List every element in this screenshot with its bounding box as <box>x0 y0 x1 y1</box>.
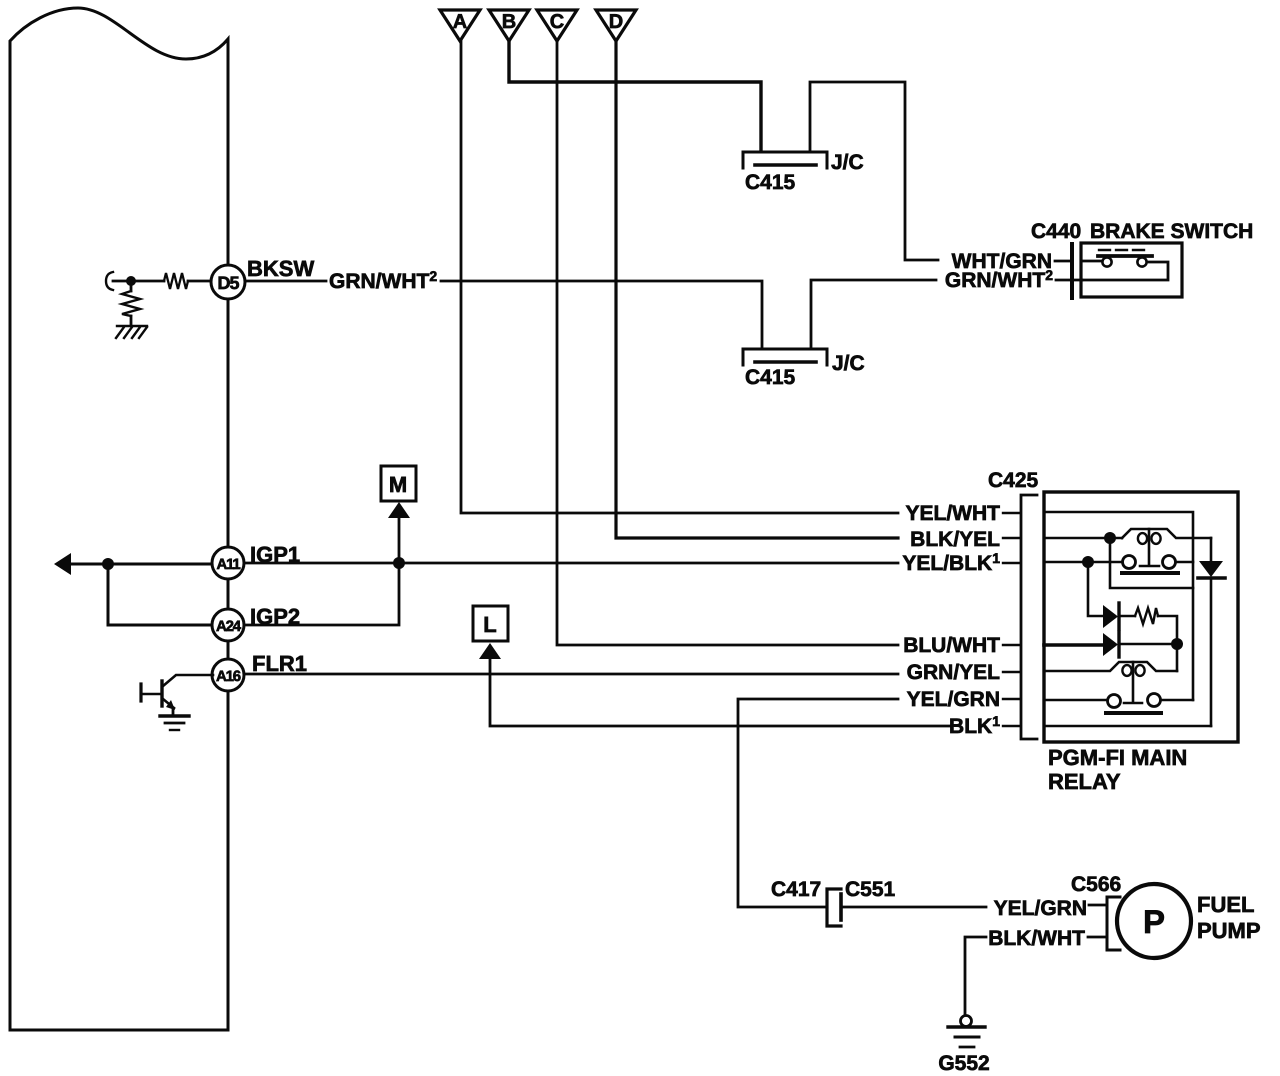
node: junction dot IGP1/IGP2 <box>102 558 114 570</box>
relay wire: YEL/WHT bus <box>1044 512 1193 700</box>
svg-text:A11: A11 <box>216 556 240 573</box>
wire: YEL/GRN from relay down to fuel pump <box>738 699 898 907</box>
relay coil 2 <box>1044 662 1177 671</box>
wire: B down and right to J/C C415 (upper) <box>509 41 761 151</box>
svg-text:C440: C440 <box>1031 220 1081 243</box>
svg-text:A16: A16 <box>216 668 241 685</box>
svg-text:P: P <box>1143 903 1165 940</box>
svg-text:YEL/WHT: YEL/WHT <box>906 502 1001 525</box>
resistor (relay internal) <box>1135 608 1158 624</box>
resistor (vertical, below junction dot) <box>130 286 133 291</box>
svg-text:YEL/GRN: YEL/GRN <box>994 897 1087 920</box>
connector triangle D <box>596 10 636 41</box>
svg-text:J/C: J/C <box>832 352 865 375</box>
wire: J/C to WHT/GRN brake switch <box>810 82 938 260</box>
connector triangle C <box>537 10 577 41</box>
svg-text:FLR1: FLR1 <box>252 651 307 676</box>
svg-text:BLU/WHT: BLU/WHT <box>903 634 1000 657</box>
pin A16 (FLR1) <box>212 659 244 691</box>
svg-text:BLK1: BLK1 <box>949 713 1000 738</box>
svg-text:G552: G552 <box>938 1052 989 1075</box>
wire: IGP1 YEL/BLK1 to relay <box>244 562 898 565</box>
svg-text:C551: C551 <box>845 878 896 901</box>
arrow (IGP1 to left, off-page) <box>70 563 212 566</box>
connector triangle A <box>440 10 480 41</box>
capacitor hook (left end of D5 internal wire) <box>106 272 113 290</box>
wire: IGP2 to M branch <box>244 518 399 625</box>
relay contact 2 <box>1108 695 1121 708</box>
relay wire: BLK/YEL into coil 1 <box>1044 537 1122 540</box>
svg-text:IGP1: IGP1 <box>250 542 300 567</box>
svg-text:PUMP: PUMP <box>1197 918 1261 943</box>
PGM-FI main relay box <box>1044 492 1238 742</box>
svg-text:YEL/GRN: YEL/GRN <box>907 688 1000 711</box>
svg-text:IGP2: IGP2 <box>250 604 300 629</box>
junction connector C415 (lower) <box>743 349 827 365</box>
node: junction dot at M branch <box>393 557 405 569</box>
svg-text:BLK/YEL: BLK/YEL <box>910 528 1000 551</box>
svg-text:A: A <box>453 11 467 33</box>
connector C566 bracket <box>1107 897 1120 950</box>
svg-text:M: M <box>389 472 407 497</box>
connector triangle B <box>489 10 529 41</box>
fuel pump motor circle <box>1117 884 1191 958</box>
wire: BLK1 from L to relay <box>490 659 950 726</box>
connector L box <box>473 606 508 641</box>
wire: D5 internal horizontal <box>113 280 210 283</box>
pin A11 (IGP1) <box>212 547 244 579</box>
wire: FLR1 GRN/YEL to relay <box>244 673 898 676</box>
pin A24 (IGP2) <box>212 609 244 641</box>
connector C425 bracket <box>1021 495 1037 739</box>
wire: A down to YEL/WHT <box>461 41 898 513</box>
svg-text:C: C <box>550 11 564 33</box>
node: dot on BLU/WHT <box>1171 638 1183 650</box>
svg-text:BLK/WHT: BLK/WHT <box>988 927 1085 950</box>
ECM module outline (torn-top box) <box>10 8 228 1030</box>
wire: D down to BLK/YEL <box>616 41 898 538</box>
wire: BKSW GRN/WHT2 from D5 <box>245 281 762 348</box>
svg-text:C566: C566 <box>1071 873 1121 896</box>
svg-text:C415: C415 <box>745 366 796 389</box>
svg-text:YEL/BLK1: YEL/BLK1 <box>902 550 1000 575</box>
svg-text:J/C: J/C <box>831 151 864 174</box>
connector C417/C551 <box>827 889 841 926</box>
svg-text:GRN/WHT2: GRN/WHT2 <box>945 267 1053 292</box>
pin D5 (BKSW) <box>211 265 245 299</box>
label dashes at C425 <box>1003 513 1019 726</box>
diode 2 (BLU/WHT) <box>1044 643 1103 647</box>
relay wire: YEL/BLK1 to contact 1 <box>1044 561 1193 564</box>
svg-text:C415: C415 <box>745 171 796 194</box>
resistor (horizontal, D5 internal) <box>164 273 188 289</box>
diode 1 (to resistor) <box>1088 562 1103 616</box>
wire to chassis ground <box>130 316 133 325</box>
svg-text:L: L <box>483 612 496 637</box>
svg-text:RELAY: RELAY <box>1048 769 1121 794</box>
connector M box <box>381 466 416 501</box>
brake switch contacts and blade <box>1082 260 1101 263</box>
wire: IGP2 internal loop <box>108 564 212 625</box>
node: junction dot on D5 internal wire <box>126 276 136 286</box>
wire: J/C lower to brake switch GRN/WHT2 <box>811 280 936 348</box>
ground (transistor emitter) <box>160 714 189 717</box>
svg-text:BRAKE SWITCH: BRAKE SWITCH <box>1090 220 1253 243</box>
brake switch body <box>1081 243 1182 297</box>
node: dot on BLK/YEL <box>1104 532 1116 544</box>
wire: C down to BLU/WHT <box>557 41 898 645</box>
chassis ground (hatched) <box>116 326 147 338</box>
svg-text:GRN/YEL: GRN/YEL <box>907 661 1001 684</box>
svg-text:C417: C417 <box>771 878 821 901</box>
relay wire: coil1 lower loop <box>1110 543 1193 588</box>
relay coil 1 <box>1122 529 1211 538</box>
svg-text:A24: A24 <box>216 618 242 635</box>
diode (flyback, right) <box>1210 538 1213 561</box>
wire: BLK/WHT to ground <box>965 937 1106 1015</box>
relay contact 1 <box>1123 556 1136 569</box>
svg-text:GRN/WHT2: GRN/WHT2 <box>329 268 437 293</box>
svg-text:D5: D5 <box>217 273 239 293</box>
relay wire: YEL/GRN to contact 2 <box>1044 699 1193 702</box>
node: dot on YEL/BLK1 <box>1082 556 1094 568</box>
svg-text:FUEL: FUEL <box>1197 892 1254 917</box>
wire: YEL/GRN to fuel pump <box>843 906 986 909</box>
transistor (FLR1 driver) <box>163 675 213 686</box>
brake switch C440 connector bar <box>1070 244 1074 298</box>
relay wire: BLK1 to diode <box>1044 725 1211 728</box>
svg-text:PGM-FI MAIN: PGM-FI MAIN <box>1048 745 1187 770</box>
svg-text:C425: C425 <box>988 469 1039 492</box>
junction connector C415 (upper) <box>743 152 827 168</box>
svg-text:D: D <box>609 11 623 33</box>
ground G552 <box>961 1016 972 1027</box>
svg-text:B: B <box>502 11 516 33</box>
svg-text:BKSW: BKSW <box>247 256 314 281</box>
